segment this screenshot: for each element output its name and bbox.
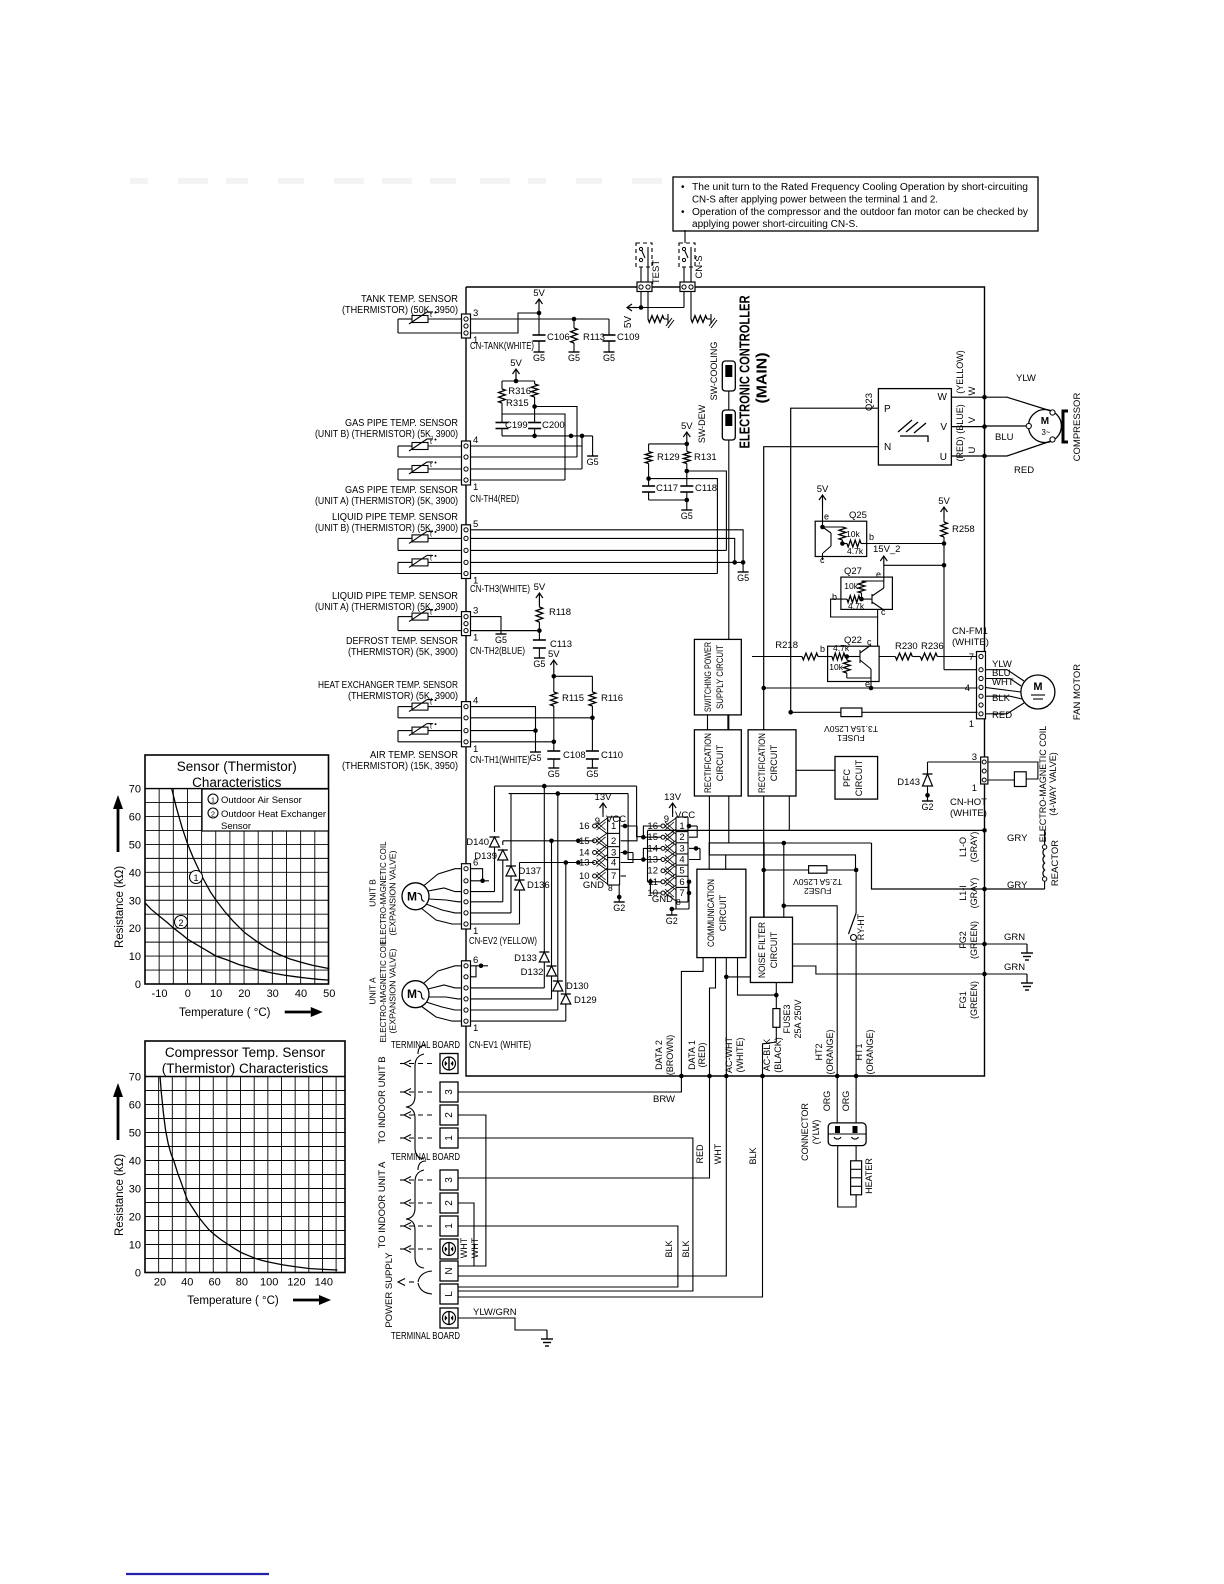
connector CN-EV2 [462,864,471,929]
diode D139 [502,841,504,845]
svg-text:1: 1 [473,633,478,644]
svg-text:10: 10 [129,951,141,963]
svg-text:(BLACK): (BLACK) [773,1037,783,1073]
resistor R315 [501,381,503,389]
svg-text:LIQUID PIPE TEMP. SENSOR: LIQUID PIPE TEMP. SENSOR [332,591,458,602]
resistor CN-S pulldown [691,316,707,323]
svg-text:V: V [967,416,978,423]
wire CN-EV2 pin2 to D137 [471,912,512,914]
block SWITCHING POWER SUPPLY CIRCUIT [694,639,741,715]
svg-text:WHT: WHT [470,1237,480,1258]
wire heat exchanger loop [398,706,412,708]
wire WHT to N [458,1076,726,1276]
wire CN-EV1 pin3 to D132 [471,998,552,1000]
svg-text:1: 1 [211,796,215,805]
svg-text:D137: D137 [519,866,542,877]
thermistor defrost [412,613,428,620]
svg-text:SW-DEW: SW-DEW [697,404,707,443]
diode D130 [553,980,563,982]
svg-text:3: 3 [473,308,478,319]
wire CN-TH3 pin4 to ground [471,538,735,562]
svg-text:120: 120 [287,1277,305,1289]
connector heater CONNECTOR YLW [828,1123,866,1146]
wire CN-TH3 pin2 ground line [471,561,744,563]
compressor terminal bracket [1063,411,1068,442]
diode D137 [510,794,512,866]
svg-text:CN-EV1 (WHITE): CN-EV1 (WHITE) [469,1040,531,1051]
terminal A 1 [440,1216,458,1236]
wire L1-O line [648,829,985,831]
svg-text:The unit turn to the Rated Fre: The unit turn to the Rated Frequency Coo… [692,182,1028,193]
svg-text:GRY: GRY [1007,833,1028,844]
wire bus1 13V drive [495,785,637,787]
svg-text:POWER SUPPLY: POWER SUPPLY [384,1252,395,1328]
decorative blue rule [126,1573,269,1575]
brace indoor unit B [406,1054,424,1159]
svg-text:AIR TEMP. SENSOR: AIR TEMP. SENSOR [370,750,458,761]
ground G2 inverter2 [671,909,673,915]
svg-text:Sensor: Sensor [221,821,251,832]
svg-text:RED: RED [1014,465,1034,476]
connector CN-TH4 [462,441,471,485]
thermistor heat exchanger [412,703,428,710]
svg-text:G5: G5 [548,769,560,779]
svg-text:b: b [869,532,874,542]
IGBT module Q23 [878,389,951,465]
svg-text:RY-HT: RY-HT [856,913,866,940]
svg-text:t: t [430,724,432,731]
svg-text:TANK TEMP. SENSOR: TANK TEMP. SENSOR [361,294,458,305]
wire CN-EV2 pin5 stub [471,880,490,882]
svg-text:N: N [884,442,891,453]
wire CN-TH4 pin1 line [471,479,566,481]
svg-text:40: 40 [129,1156,141,1168]
svg-text:YLW/GRN: YLW/GRN [473,1307,517,1318]
resistor R316 [534,381,536,384]
svg-text:13V: 13V [664,792,682,803]
switch SW-DEW [722,410,735,440]
svg-text:BLK: BLK [681,1240,691,1257]
ground power supply earth [546,1330,548,1339]
svg-text:(BLUE): (BLUE) [955,404,965,434]
svg-text:(GRAY): (GRAY) [969,878,979,909]
wire Q25 base to R258 [867,543,944,545]
diode D129 [561,993,571,995]
svg-text:G5: G5 [681,511,693,521]
node 5V TEST [627,307,637,309]
brace indoor unit A [406,1170,424,1268]
svg-text:DATA 2: DATA 2 [654,1040,664,1070]
svg-text:SUPPLY CIRCUIT: SUPPLY CIRCUIT [715,645,725,709]
svg-text:G5: G5 [533,659,545,669]
svg-text:FUSE2: FUSE2 [804,886,832,896]
svg-text:DATA 1: DATA 1 [687,1040,697,1070]
svg-text:Q25: Q25 [849,510,867,521]
svg-text:RED: RED [695,1144,705,1164]
block RECTIFICATION CIRCUIT 2 [748,730,796,796]
board outline ELECTRONIC CONTROLLER [466,287,985,1076]
svg-text:CN-S after applying power betw: CN-S after applying power between the te… [692,195,938,206]
svg-text:BLK: BLK [748,1147,758,1164]
4-way valve coil [988,762,1038,779]
connector TEST [637,282,652,292]
wire R315 output to CN-TH4 pin1 [502,414,565,480]
wire CN-EV2 pin3 to D139 [471,901,503,903]
svg-text:UNIT B: UNIT B [368,879,378,907]
svg-text:20: 20 [129,923,141,935]
wire line to inverter1 pin13 [520,862,595,864]
svg-text:G5: G5 [568,353,580,363]
svg-text:2: 2 [444,1200,455,1206]
svg-text:CN-FM1: CN-FM1 [952,626,988,637]
block COMMUNICATION CIRCUIT [697,869,746,957]
svg-text:RECTIFICATION: RECTIFICATION [703,733,713,793]
svg-text:(Thermistor) Characteristics: (Thermistor) Characteristics [162,1061,329,1076]
svg-text:LIQUID PIPE TEMP. SENSOR: LIQUID PIPE TEMP. SENSOR [332,512,458,523]
wire CN-EV2 pin1 to D136 [471,923,520,925]
wire earth YLW/GRN [458,1318,547,1330]
terminal A 3 [440,1170,458,1190]
svg-text:1: 1 [473,482,478,493]
svg-text:(EXPANSION VALVE): (EXPANSION VALVE) [388,948,398,1033]
node 5V R115 R116 [553,660,555,672]
wire heater return [838,1146,856,1207]
wire TEST CN-S pulldowns [640,291,642,308]
svg-text:ORG: ORG [841,1091,851,1112]
curve mark 2 [175,916,188,929]
svg-text:D136: D136 [527,880,550,891]
svg-text:T2.5A L250V: T2.5A L250V [793,877,842,887]
svg-text:4: 4 [473,696,478,707]
svg-text:T3.15A L250V: T3.15A L250V [824,724,878,734]
svg-text:GAS PIPE TEMP. SENSOR: GAS PIPE TEMP. SENSOR [345,485,458,496]
wire C199 C200 ground line [502,435,593,437]
svg-text:TO INDOOR UNIT A: TO INDOOR UNIT A [377,1161,388,1248]
svg-text:20: 20 [154,1277,166,1289]
wire C117 C118 bottoms [649,499,687,501]
svg-text:5: 5 [679,866,684,877]
svg-text:BRW: BRW [653,1094,675,1105]
svg-text:(BROWN): (BROWN) [665,1035,675,1076]
wire ORG heater leads [836,1076,838,1123]
svg-text:3: 3 [473,606,478,617]
resistor R129 [649,443,687,445]
wire BLK to L [458,1076,763,1297]
svg-text:R316: R316 [508,386,531,397]
svg-text:5: 5 [473,519,478,530]
svg-text:(WHITE): (WHITE) [952,637,989,648]
wire CN-EV2 pin4 to D140 [471,891,495,893]
svg-text:Outdoor Air Sensor: Outdoor Air Sensor [221,795,302,806]
block NOISE FILTER CIRCUIT [750,917,792,982]
wire CN-TH4 pin3 line [471,456,578,458]
svg-text:b: b [820,644,825,654]
wire fan common [764,687,978,689]
wire Q23 U phase [951,455,984,457]
svg-text:(RED): (RED) [697,1043,707,1068]
wire L1-O from rect2 [788,796,790,830]
svg-text:FG2: FG2 [958,931,968,949]
svg-text:(THERMISTOR) (5K, 3900): (THERMISTOR) (5K, 3900) [348,647,458,658]
svg-text:FUSE3: FUSE3 [782,1004,792,1033]
svg-text:2: 2 [611,836,616,847]
terminal B 2 [440,1105,458,1125]
svg-text:C109: C109 [617,332,640,343]
capacitor C109 [608,319,610,335]
svg-text:C200: C200 [542,420,565,431]
svg-text:(WHITE): (WHITE) [950,808,987,819]
svg-text:40: 40 [295,988,307,1000]
wire inverter2 output3 [689,847,700,849]
svg-text:W: W [938,392,948,403]
svg-text:L1-I: L1-I [958,885,968,901]
wire inverter2 output bracket 1-2 [689,826,697,837]
svg-text:3~: 3~ [1041,428,1050,437]
wire tank sensor loop [398,318,412,320]
wire motor A to CN-EV1 [424,966,462,983]
fuse FUSE3 [775,983,777,1009]
wire CN-TH1 pin1 to R115 [471,741,554,743]
svg-text:50: 50 [129,1128,141,1140]
svg-text:50: 50 [323,988,335,1000]
connector CN-HOT [928,761,981,763]
fuse FUSE1 [791,711,978,713]
svg-text:(UNIT B) (THERMISTOR) (5K, 390: (UNIT B) (THERMISTOR) (5K, 3900) [315,523,458,534]
capacitor C200 [534,407,536,423]
svg-text:50: 50 [129,839,141,851]
svg-text:80: 80 [236,1277,248,1289]
svg-text:TERMINAL BOARD: TERMINAL BOARD [391,1331,460,1342]
wire TB-A3 RED [458,1076,710,1178]
svg-text:U: U [967,446,978,453]
wire inverter2 bracket 14-13 [643,848,661,859]
svg-text:5V: 5V [623,316,634,329]
svg-text:C117: C117 [656,483,678,494]
svg-text:COMPRESSOR: COMPRESSOR [1072,393,1083,462]
svg-text:G5: G5 [533,353,545,363]
wire motor B to CN-EV2 [424,869,462,886]
svg-text:(UNIT B) (THERMISTOR) (5K, 390: (UNIT B) (THERMISTOR) (5K, 3900) [315,429,458,440]
svg-text:Outdoor Heat Exchanger: Outdoor Heat Exchanger [221,809,326,820]
svg-text:t: t [430,531,432,538]
svg-text:WHT: WHT [459,1237,469,1258]
svg-text:RED: RED [992,710,1012,721]
svg-text:1: 1 [972,783,977,794]
svg-text:CN-TH2(BLUE): CN-TH2(BLUE) [470,646,525,657]
resistor R113 [573,319,575,328]
diode D133 [539,951,549,953]
svg-text:10k: 10k [829,662,843,672]
power supply fork [418,1271,432,1282]
svg-text:ELECTRO-MAGNETIC COIL: ELECTRO-MAGNETIC COIL [378,939,388,1042]
svg-text:8: 8 [676,897,681,907]
svg-text:R230: R230 [895,641,918,652]
svg-text:R129: R129 [657,452,680,463]
wire TB-A1 to L [458,1226,678,1287]
svg-text:(GREEN): (GREEN) [969,921,979,959]
terminal L [440,1284,458,1304]
svg-text:COMMUNICATION: COMMUNICATION [706,879,716,947]
svg-text:R115: R115 [562,693,584,704]
wire Q22 emitter [870,669,872,688]
svg-text:15: 15 [579,836,590,847]
svg-text:BLK: BLK [664,1240,674,1257]
terminal N [440,1261,458,1281]
svg-text:0: 0 [135,1268,141,1280]
svg-text:30: 30 [129,1184,141,1196]
node 5V R118 [538,593,540,605]
capacitor C199 [501,414,503,423]
svg-text:5V: 5V [534,582,546,593]
wire DATA1 [710,958,716,1076]
svg-text:RECTIFICATION: RECTIFICATION [757,733,767,793]
svg-text:4.7k: 4.7k [833,643,850,653]
capacitor C117 [648,479,650,486]
svg-text:(YLW): (YLW) [811,1120,821,1145]
wire inverter2 output bracket 3-4 [689,848,700,859]
wire 15V_2 rail to CN-FM1 pin6 [943,544,945,670]
svg-text:CIRCUIT: CIRCUIT [718,894,728,931]
svg-text:P: P [884,404,891,415]
thermistor liquid pipe A [412,559,428,566]
legend graph1 [202,789,329,831]
wire Q23 W phase [951,396,984,398]
curve mark 1 [190,871,203,884]
wire inverter1 outputs 3 4 [621,852,633,854]
svg-text:t: t [430,700,432,707]
svg-text:DEFROST TEMP. SENSOR: DEFROST TEMP. SENSOR [346,636,458,647]
svg-text:CN-HOT: CN-HOT [950,797,987,808]
junction dots bottom rail [679,1074,684,1079]
svg-text:•: • [681,182,685,193]
svg-text:ELECTRONIC CONTROLLER: ELECTRONIC CONTROLLER [738,295,754,448]
svg-text:applying power short-circuitin: applying power short-circuiting CN-S. [692,219,858,230]
inverter IC array1 [593,824,597,828]
wire CN-TH3 pin3 line [471,549,727,551]
motor M expansion valve B [402,883,429,910]
motor M expansion valve A [402,981,429,1008]
connector CN-TH2 [462,612,471,636]
svg-text:(4-WAY VALVE): (4-WAY VALVE) [1048,752,1058,816]
svg-text:VCC: VCC [606,814,626,825]
svg-text:3: 3 [444,1089,455,1095]
svg-text:(MAIN): (MAIN) [755,352,771,403]
wire CN-EV1 pin4 to D133 [471,987,545,989]
svg-text:G5: G5 [495,635,507,645]
terminal B 3 [440,1082,458,1102]
svg-text:6: 6 [473,858,478,869]
svg-text:CN-EV2 (YELLOW): CN-EV2 (YELLOW) [469,936,537,947]
wire defrost loop [398,616,412,618]
resistor R131 [686,444,688,452]
wire R316 output to CN-TH4 pin3 [532,404,537,409]
block PFC CIRCUIT [835,757,878,800]
note box [673,177,1038,231]
wire note box to CN-S [684,230,686,243]
svg-text:b: b [832,592,837,602]
svg-text:t: t [430,462,432,469]
svg-text:6: 6 [679,877,684,888]
svg-text:CONNECTOR: CONNECTOR [800,1103,810,1161]
wire CN-TANK pin1 to 5V [471,313,540,333]
svg-text:G5: G5 [737,573,749,583]
svg-text:D129: D129 [574,995,597,1006]
connector CN-TH1 [462,702,471,747]
wire CN-TANK pin3 line [471,318,610,320]
svg-text:(ORANGE): (ORANGE) [865,1029,875,1074]
svg-text:Operation of the compressor an: Operation of the compressor and the outd… [692,207,1028,218]
terminal B earth [440,1054,458,1074]
svg-text:(GRAY): (GRAY) [969,832,979,863]
svg-text:HT2: HT2 [814,1043,824,1060]
svg-text:9: 9 [664,814,669,825]
wire inverter2 bracket 16-15 [643,826,661,837]
svg-text:30: 30 [267,988,279,1000]
svg-text:(THERMISTOR) (15K, 3950): (THERMISTOR) (15K, 3950) [342,761,458,772]
svg-text:9: 9 [595,816,600,827]
svg-text:CN-TANK(WHITE): CN-TANK(WHITE) [470,341,534,352]
svg-text:FUSE1: FUSE1 [837,733,865,743]
svg-text:1: 1 [473,1023,478,1034]
svg-text:CIRCUIT: CIRCUIT [854,759,864,796]
svg-text:4.7k: 4.7k [848,601,865,611]
svg-text:ELECTRO-MAGNETIC COIL: ELECTRO-MAGNETIC COIL [378,841,388,944]
svg-text:GAS PIPE TEMP. SENSOR: GAS PIPE TEMP. SENSOR [345,418,458,429]
wire D133 feed [543,786,545,952]
wire liquid pipe A loop [398,561,412,563]
svg-text:HEAT EXCHANGER TEMP. SENSOR: HEAT EXCHANGER TEMP. SENSOR [318,680,458,691]
svg-text:M: M [407,987,417,1001]
svg-text:1: 1 [193,873,198,883]
svg-text:G2: G2 [666,916,678,926]
svg-text:4.7k: 4.7k [847,546,864,556]
wire CN-TH3 pin5 to ground [471,530,744,563]
ground G2 inverter1 [618,897,620,902]
svg-text:D132: D132 [521,967,544,978]
terminal A 2 [440,1193,458,1213]
thermistor gas pipe A [412,466,428,473]
svg-text:7: 7 [969,652,974,663]
wire comm to fuse3 node [738,958,777,996]
svg-text:SWITCHING POWER: SWITCHING POWER [703,642,713,712]
svg-text:0: 0 [135,979,141,991]
svg-text:GRN: GRN [1004,962,1025,973]
svg-text:M: M [407,889,417,903]
svg-text:Characteristics: Characteristics [192,775,282,790]
svg-text:C108: C108 [563,750,586,761]
svg-text:(UNIT A) (THERMISTOR) (5K, 390: (UNIT A) (THERMISTOR) (5K, 3900) [315,496,458,507]
resistor R116 [591,676,593,692]
wire Q22 collector out R230 R236 [871,645,895,657]
svg-text:4: 4 [611,858,616,869]
svg-text:G5: G5 [587,457,599,467]
svg-text:2: 2 [444,1112,455,1118]
svg-text:N: N [444,1267,455,1274]
svg-text:HT1: HT1 [854,1043,864,1060]
svg-text:C110: C110 [601,750,623,761]
svg-text:TO INDOOR UNIT B: TO INDOOR UNIT B [377,1056,388,1143]
svg-text:(EXPANSION VALVE): (EXPANSION VALVE) [388,850,398,935]
wire inverter1 outputs 1 2 [621,825,637,827]
wire FG1 [793,966,1028,974]
svg-text:R236: R236 [921,641,944,652]
svg-text:Temperature ( °C): Temperature ( °C) [179,1007,271,1019]
wire bus1 to inverter2 bracket [637,786,644,837]
svg-text:140: 140 [315,1277,333,1289]
wire D129 feed [565,863,567,995]
svg-text:R258: R258 [952,524,975,535]
svg-text:R113: R113 [583,332,605,343]
